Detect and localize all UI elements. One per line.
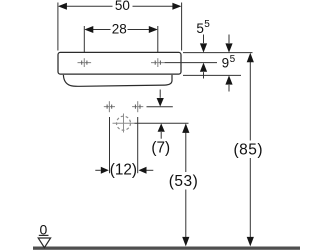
dimension 50 line	[58, 3, 181, 10]
dimension (85) vertical line	[249, 56, 251, 242]
tap hole cross left (upper)	[78, 58, 92, 67]
dimension (53) label	[169, 172, 199, 190]
svg-text:(85): (85)	[234, 141, 264, 158]
(7) upper arrow tail	[159, 90, 161, 98]
svg-text:(53): (53)	[169, 173, 199, 190]
dimension (53) arrows	[182, 123, 189, 246]
dimension 28 line	[84, 26, 158, 33]
tap hole cross left (lower)	[104, 101, 115, 112]
svg-text:5: 5	[230, 54, 236, 65]
dimension (53) vertical line	[185, 127, 187, 242]
svg-text:9: 9	[222, 55, 230, 70]
tap hole cross right (upper)	[151, 58, 165, 67]
svg-text:(7): (7)	[151, 139, 170, 156]
svg-text:5: 5	[196, 21, 204, 36]
drain cross centre lines	[113, 114, 135, 133]
dimension (12) arrows	[95, 167, 153, 174]
tap hole cross right (lower)	[132, 101, 143, 112]
svg-text:28: 28	[112, 22, 127, 37]
dimension (85) arrows	[247, 53, 254, 247]
dimension 9.5 arrows	[225, 35, 232, 92]
svg-text:(12): (12)	[110, 162, 137, 179]
datum underline	[39, 234, 49, 236]
dimension (85) label	[234, 141, 265, 159]
rim bottom extension line to right (line C)	[183, 74, 241, 76]
datum triangle	[38, 238, 50, 248]
(7) upper arrow	[157, 98, 164, 107]
dimension 5.5 arrows	[200, 35, 207, 79]
ground line	[33, 247, 300, 250]
basin bowl outline	[63, 75, 172, 86]
drain circle (dashed)	[117, 116, 131, 130]
svg-text:50: 50	[115, 0, 130, 13]
svg-text:5: 5	[204, 19, 210, 30]
rim top extension line to right (line A)	[183, 52, 253, 54]
drain centre line to right (line E)	[135, 122, 189, 124]
dimension 50 extension lines	[58, 3, 182, 51]
lower tap line (line D)	[147, 106, 173, 108]
dimension (12) extension lines	[110, 117, 138, 173]
basin rim outline	[58, 52, 181, 74]
tap hole centre line to right (line B)	[165, 62, 217, 64]
dimension 28 extension lines	[84, 26, 158, 56]
dimension (7) lower arrow	[158, 123, 165, 131]
